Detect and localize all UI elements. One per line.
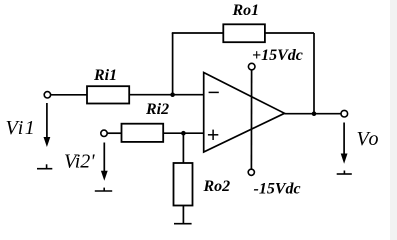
node junction Ro2/non-inverting bbox=[181, 131, 186, 136]
svg-text:Ri1: Ri1 bbox=[93, 67, 117, 84]
node junction feedback/output bbox=[312, 111, 317, 116]
svg-text:-15Vdc: -15Vdc bbox=[254, 181, 301, 198]
resistor Ro2 bbox=[174, 163, 193, 206]
ground Ro2 bbox=[174, 223, 192, 225]
terminal Vi2' bbox=[101, 130, 107, 136]
svg-text:+15Vdc: +15Vdc bbox=[252, 47, 303, 64]
svg-text:Ro2: Ro2 bbox=[203, 178, 231, 195]
ground Vo bbox=[343, 171, 345, 175]
wire feedback right vertical bbox=[313, 33, 315, 114]
wire Vi2' to Ri2 bbox=[107, 132, 121, 134]
node junction feedback/inverting bbox=[170, 92, 175, 97]
svg-text:Ri2: Ri2 bbox=[145, 101, 169, 118]
svg-text:Vo: Vo bbox=[357, 128, 381, 150]
op-amp U1 bbox=[204, 73, 285, 153]
wire Vi1 to Ri1 bbox=[51, 94, 87, 96]
resistor Ro1 bbox=[223, 24, 265, 42]
power -15Vdc pin circle bbox=[248, 169, 254, 175]
wire feedback top horizontal bbox=[172, 32, 314, 34]
svg-text:Vi2': Vi2' bbox=[64, 151, 95, 173]
terminal Vo bbox=[341, 110, 348, 117]
pin minus sign bbox=[209, 91, 219, 93]
wire feedback left vertical bbox=[172, 33, 174, 95]
wire Ri1 to op-amp inverting input bbox=[129, 94, 204, 96]
ground Vi2' bbox=[103, 188, 105, 191]
power +15Vdc pin circle bbox=[248, 63, 255, 70]
arrow Vo bbox=[343, 123, 345, 155]
svg-text:Vi1: Vi1 bbox=[6, 117, 37, 139]
svg-text:Ro1: Ro1 bbox=[232, 2, 260, 19]
wire node to Ro2 bbox=[182, 133, 184, 163]
resistor Ri2 bbox=[122, 124, 164, 142]
terminal Vi1 bbox=[44, 92, 50, 98]
arrow Vi2' bbox=[103, 143, 105, 172]
wire Ri2 to op-amp non-inverting input bbox=[163, 132, 204, 134]
arrow Vi1 bbox=[46, 103, 48, 138]
wire supply vertical bbox=[250, 70, 252, 169]
pin plus sign bbox=[208, 134, 218, 136]
wire Ro2 to ground bbox=[182, 206, 184, 224]
resistor Ri1 bbox=[87, 86, 129, 103]
ground Vi1 bbox=[46, 164, 48, 168]
wire output bbox=[285, 113, 342, 115]
